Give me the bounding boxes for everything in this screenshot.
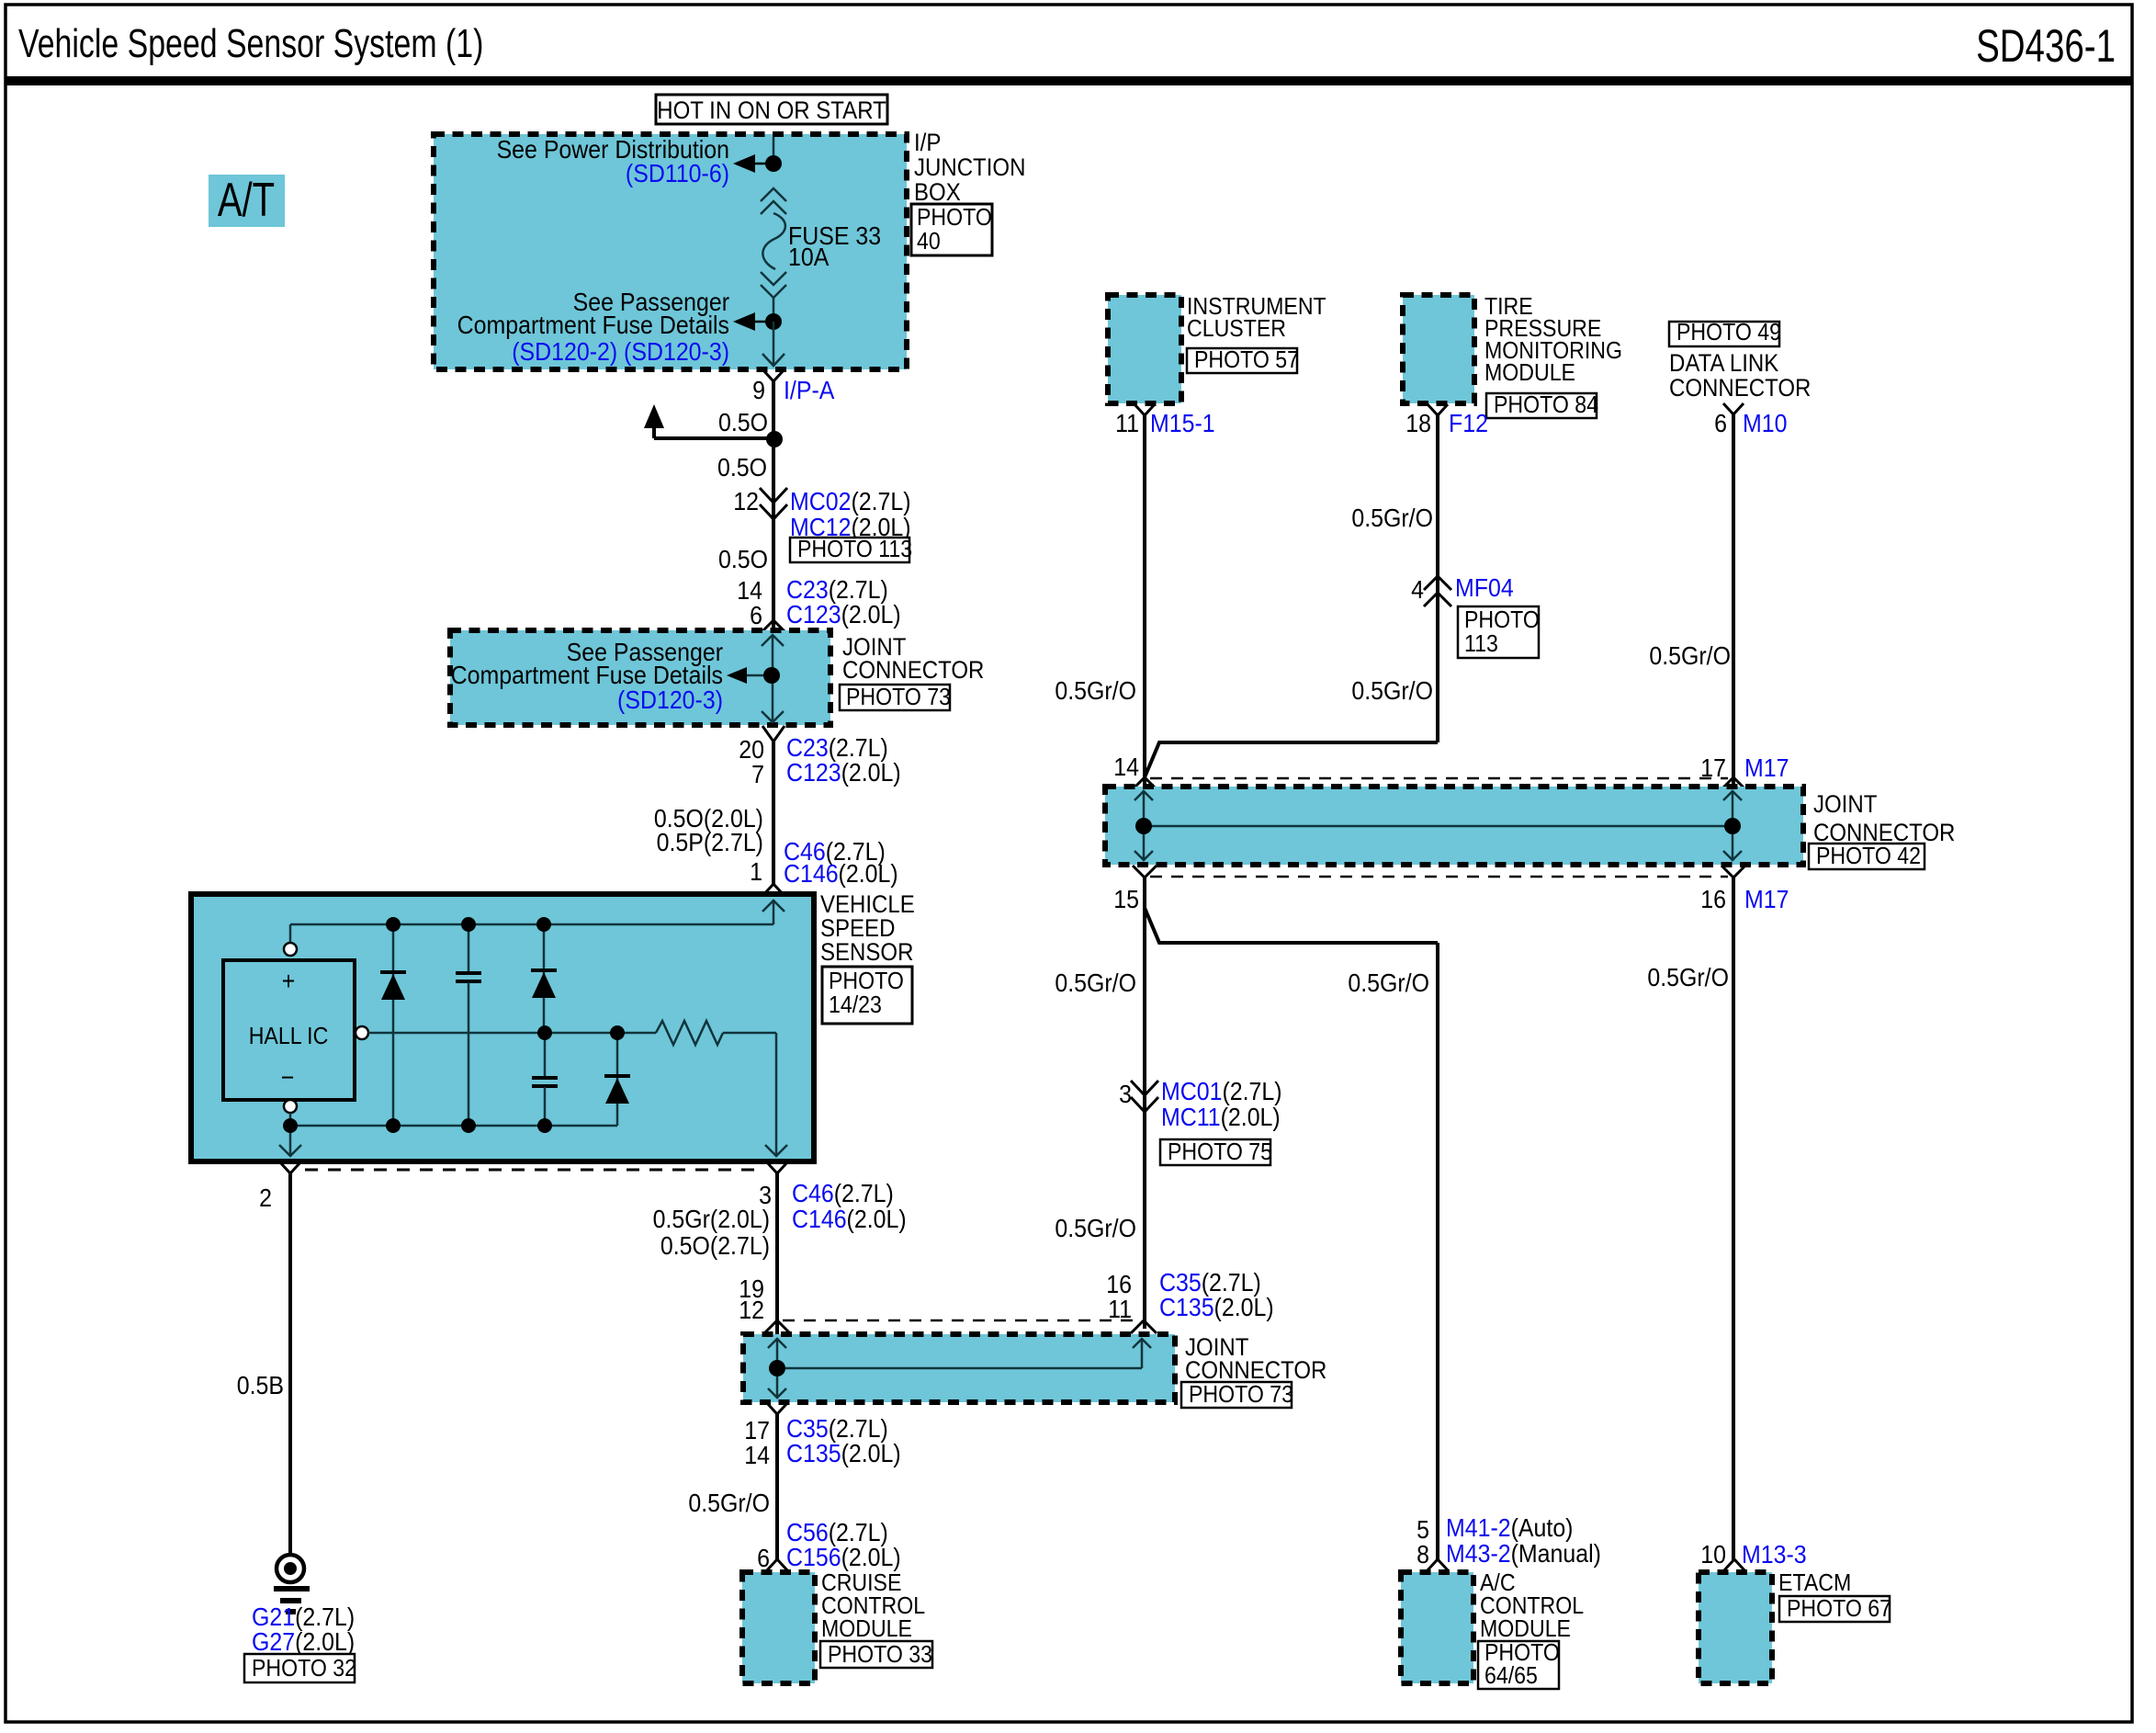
wire: DLC column down to ETACM	[1732, 878, 1735, 1560]
wire: instrument cluster to joint connector pin 14	[1143, 415, 1146, 787]
svg-text:+: +	[282, 967, 296, 996]
svg-text:C146(2.0L): C146(2.0L)	[784, 859, 898, 889]
svg-text:MC02(2.7L): MC02(2.7L)	[790, 487, 911, 516]
svg-text:4: 4	[1411, 575, 1424, 605]
capacitor C2	[532, 1033, 558, 1126]
svg-text:0.5Gr/O: 0.5Gr/O	[1055, 1214, 1136, 1243]
svg-text:Vehicle Speed Sensor System (1: Vehicle Speed Sensor System (1)	[18, 21, 483, 66]
wire: TPMS branch to cluster wire at pin 14	[1145, 742, 1438, 777]
title bar thick divider	[6, 76, 2132, 85]
svg-text:15: 15	[1113, 885, 1139, 914]
connector pin 2 (VSS)	[280, 1162, 300, 1173]
svg-text:M17: M17	[1744, 885, 1789, 914]
wire: VSS pin 3 down to lower joint connector	[775, 1173, 779, 1334]
svg-text:JUNCTION: JUNCTION	[914, 154, 1025, 182]
svg-text:PHOTO 84: PHOTO 84	[1494, 392, 1598, 419]
PHOTO 75 box	[1160, 1139, 1272, 1166]
PHOTO 42 box	[1809, 844, 1925, 870]
svg-text:PHOTO 75: PHOTO 75	[1168, 1139, 1272, 1166]
PHOTO 84 box	[1486, 392, 1598, 419]
svg-text:PHOTO 49: PHOTO 49	[1676, 320, 1781, 346]
PHOTO 57 box	[1187, 347, 1299, 374]
svg-text:MODULE: MODULE	[821, 1616, 912, 1643]
joint connector (lower, PHOTO 73)	[743, 1334, 1175, 1402]
svg-text:18: 18	[1405, 409, 1431, 438]
svg-text:12: 12	[733, 487, 759, 516]
A/T tag box	[209, 173, 285, 227]
wire: inside lower joint connector	[768, 1338, 1151, 1399]
dashed mating line (joint connector 42 top)	[1150, 777, 1728, 780]
ground G21/G27	[274, 1555, 310, 1612]
dashed mating line (lower joint connector)	[783, 1320, 1137, 1322]
svg-text:M13-3: M13-3	[1742, 1540, 1807, 1569]
node: upper joint connector tap	[763, 667, 780, 684]
svg-text:M43-2(Manual): M43-2(Manual)	[1446, 1539, 1601, 1569]
wire: lower joint connector to cruise module	[775, 1414, 779, 1560]
connector pin 11 M15-1	[1134, 404, 1155, 415]
svg-text:PHOTO 57: PHOTO 57	[1194, 347, 1299, 374]
svg-text:PHOTO 32: PHOTO 32	[252, 1656, 356, 1682]
resistor R1	[656, 1021, 723, 1045]
wire: I/P-A down to MC02 connector	[772, 381, 775, 661]
wire: joint connector to VSS pin 1	[772, 740, 775, 884]
wire: arrow to See Power Distribution	[740, 163, 773, 165]
svg-text:A/T: A/T	[218, 173, 275, 226]
svg-text:(SD120-3): (SD120-3)	[617, 685, 723, 715]
svg-text:0.5Gr/O: 0.5Gr/O	[1348, 968, 1429, 998]
svg-text:PHOTO 73: PHOTO 73	[846, 685, 951, 711]
PHOTO 32 box	[244, 1654, 356, 1682]
wire: HOT feed into I/P box	[773, 137, 775, 164]
connector pin 18 F12	[1428, 404, 1448, 415]
vehicle speed sensor box	[191, 894, 814, 1161]
svg-text:12: 12	[739, 1296, 764, 1325]
svg-text:6: 6	[750, 601, 762, 630]
svg-text:10: 10	[1700, 1540, 1726, 1569]
wire: A/C column down	[1436, 943, 1439, 1560]
svg-text:11: 11	[1108, 1295, 1132, 1324]
svg-text:16: 16	[1700, 885, 1726, 914]
svg-text:G27(2.0L): G27(2.0L)	[252, 1627, 355, 1657]
svg-text:I/P: I/P	[914, 130, 941, 157]
svg-text:M41-2(Auto): M41-2(Auto)	[1446, 1513, 1573, 1543]
svg-text:3: 3	[1119, 1080, 1132, 1109]
svg-text:2: 2	[259, 1184, 272, 1213]
svg-text:7: 7	[751, 760, 764, 789]
svg-text:PHOTO: PHOTO	[1464, 607, 1540, 634]
wire: VSS bottom bus	[290, 1125, 617, 1127]
svg-text:JOINT: JOINT	[1813, 791, 1878, 819]
svg-text:PHOTO 67: PHOTO 67	[1787, 1596, 1891, 1623]
wire: HALL IC minus to bottom bus	[289, 1113, 292, 1126]
PHOTO 67 box	[1779, 1596, 1891, 1623]
svg-text:I/P-A: I/P-A	[784, 376, 835, 405]
svg-text:M17: M17	[1744, 753, 1789, 783]
svg-text:BOX: BOX	[914, 179, 961, 207]
PHOTO 73 box (upper)	[840, 685, 951, 711]
wire: tap to pin 9 with exit arrow	[773, 322, 775, 366]
node dots in joint connector 42	[1135, 818, 1152, 834]
svg-text:0.5Gr/O: 0.5Gr/O	[1649, 641, 1731, 671]
svg-text:64/65: 64/65	[1484, 1663, 1538, 1690]
svg-text:SD436-1: SD436-1	[1976, 21, 2116, 72]
svg-text:0.5Gr/O: 0.5Gr/O	[1055, 968, 1136, 998]
PHOTO 14/23 box	[822, 967, 912, 1024]
wire: pin 15 down to lower joint connector (col A)	[1143, 878, 1146, 1329]
connector pins 17/14 C35/C135	[767, 1403, 787, 1414]
node: branch junction	[766, 431, 783, 447]
svg-text:0.5O: 0.5O	[718, 408, 768, 437]
PHOTO 113 box (MF04)	[1458, 606, 1540, 658]
svg-text:0.5Gr/O: 0.5Gr/O	[1351, 676, 1433, 706]
svg-text:14/23: 14/23	[829, 992, 882, 1019]
node dots on VSS buses	[283, 917, 625, 1133]
svg-text:1: 1	[750, 857, 762, 887]
svg-text:14: 14	[744, 1441, 770, 1470]
pin circle: HALL IC output	[356, 1026, 368, 1039]
svg-text:C156(2.0L): C156(2.0L)	[786, 1543, 901, 1572]
I/P junction box (dashed module)	[434, 134, 907, 369]
HALL IC box	[223, 960, 355, 1100]
diode D1 (left clamp)	[380, 924, 406, 1126]
svg-text:C135(2.0L): C135(2.0L)	[786, 1439, 901, 1468]
svg-text:11: 11	[1115, 409, 1139, 438]
svg-text:PHOTO 73: PHOTO 73	[1189, 1382, 1293, 1409]
svg-text:0.5P(2.7L): 0.5P(2.7L)	[657, 828, 763, 857]
svg-text:SENSOR: SENSOR	[820, 939, 913, 967]
svg-text:C135(2.0L): C135(2.0L)	[1159, 1293, 1274, 1322]
ETACM box	[1699, 1572, 1772, 1683]
svg-text:0.5Gr/O: 0.5Gr/O	[1055, 676, 1136, 706]
svg-text:Compartment Fuse Details: Compartment Fuse Details	[457, 311, 729, 340]
connector MC02/MC12 (in-line)	[760, 488, 787, 519]
svg-text:HALL IC: HALL IC	[249, 1024, 329, 1050]
svg-text:CLUSTER: CLUSTER	[1187, 316, 1286, 343]
svg-text:40: 40	[917, 229, 941, 255]
PHOTO 49 box	[1669, 320, 1781, 346]
svg-text:CONNECTOR: CONNECTOR	[1185, 1357, 1326, 1385]
svg-text:MC01(2.7L): MC01(2.7L)	[1161, 1077, 1282, 1106]
svg-text:F12: F12	[1449, 409, 1488, 438]
svg-text:MC11(2.0L): MC11(2.0L)	[1161, 1103, 1281, 1132]
wire: inside upper joint connector	[733, 635, 784, 722]
wire: branch arrow back up to I/P box	[652, 426, 656, 438]
connector pins 20/7 C23/C123	[762, 726, 785, 742]
svg-text:0.5B: 0.5B	[237, 1371, 284, 1400]
svg-text:−: −	[281, 1063, 295, 1093]
diode D2 (upper mid clamp)	[531, 924, 557, 1033]
wire: inside joint connector 42 left	[1134, 790, 1153, 861]
svg-text:(SD120-2) (SD120-3): (SD120-2) (SD120-3)	[512, 337, 729, 367]
connector pin 6 M10	[1723, 403, 1744, 414]
svg-text:DATA LINK: DATA LINK	[1669, 350, 1778, 378]
svg-text:M10: M10	[1743, 409, 1787, 438]
tire pressure monitoring module box	[1403, 295, 1474, 403]
wire: resistor to VSS pin 3	[723, 1033, 787, 1156]
svg-text:9: 9	[752, 376, 765, 405]
svg-text:C146(2.0L): C146(2.0L)	[792, 1205, 907, 1234]
svg-text:CONNECTOR: CONNECTOR	[842, 657, 984, 685]
svg-text:14: 14	[1113, 753, 1139, 782]
connector MF04 (in-line)	[1424, 576, 1451, 606]
svg-text:ETACM: ETACM	[1778, 1570, 1851, 1597]
connector pin 3 C46/C146 (VSS)	[767, 1162, 787, 1173]
svg-text:6: 6	[1714, 409, 1727, 438]
diode D3 (lower clamp)	[604, 1033, 630, 1126]
wire: arrow to See Passenger Compartment Fuse Details	[740, 321, 773, 323]
wire: VSS pin 2 to ground	[288, 1173, 292, 1556]
fuse FUSE 33 10A	[761, 188, 786, 298]
svg-text:8: 8	[1417, 1540, 1429, 1569]
svg-text:PHOTO 33: PHOTO 33	[828, 1642, 932, 1669]
svg-text:C123(2.0L): C123(2.0L)	[786, 758, 901, 787]
svg-text:10A: 10A	[788, 243, 830, 272]
wire: VSS pin 2 drop with arrow	[279, 1126, 301, 1156]
pin circle: HALL IC + terminal	[284, 943, 297, 956]
svg-text:PHOTO 42: PHOTO 42	[1816, 844, 1921, 870]
HOT IN ON OR START box	[656, 95, 887, 124]
wire: joint connector 42 internal bus	[1144, 825, 1733, 828]
connector pin 9 I/P-A	[763, 370, 784, 381]
svg-text:MODULE: MODULE	[1484, 360, 1575, 387]
node: passenger fuse tap	[765, 313, 782, 330]
svg-text:MODULE: MODULE	[1480, 1616, 1571, 1643]
A/C control module box	[1401, 1572, 1473, 1683]
PHOTO 73 box (lower)	[1181, 1382, 1293, 1409]
PHOTO 113 box (MC02)	[790, 537, 912, 563]
PHOTO 33 box	[820, 1641, 932, 1668]
connector MC01/MC11 (in-line)	[1131, 1081, 1158, 1112]
dashed connector separator under VSS	[305, 1169, 762, 1172]
node: lower joint connector tap	[769, 1360, 785, 1376]
svg-text:HOT IN ON OR START: HOT IN ON OR START	[657, 97, 886, 125]
svg-text:0.5O: 0.5O	[718, 545, 768, 574]
svg-text:M15-1: M15-1	[1150, 409, 1215, 438]
wire: pin 15 branch to A/C column	[1145, 908, 1438, 943]
svg-text:PHOTO: PHOTO	[829, 968, 904, 995]
svg-text:CONNECTOR: CONNECTOR	[1669, 375, 1811, 402]
svg-text:113: 113	[1464, 631, 1498, 658]
wire: fuse to lower tap	[773, 298, 775, 322]
wire: VSS pin1 riser and top bus	[290, 900, 785, 943]
wire: DLC to joint connector pin 17	[1732, 414, 1735, 787]
pin circle: HALL IC - terminal	[284, 1100, 297, 1113]
svg-text:(SD110-6): (SD110-6)	[626, 159, 729, 188]
svg-text:0.5Gr(2.0L): 0.5Gr(2.0L)	[653, 1205, 770, 1234]
svg-text:C46(2.7L): C46(2.7L)	[792, 1179, 894, 1208]
svg-text:0.5Gr/O: 0.5Gr/O	[688, 1489, 770, 1518]
PHOTO 64/65 box	[1478, 1640, 1560, 1690]
wire: TPMS to MF04	[1436, 415, 1439, 742]
wire: inside joint connector 42 right	[1723, 790, 1742, 861]
instrument cluster box	[1108, 295, 1181, 403]
svg-text:PHOTO: PHOTO	[917, 205, 992, 232]
svg-text:0.5O: 0.5O	[717, 453, 767, 482]
svg-text:MF04: MF04	[1455, 573, 1514, 603]
svg-text:0.5Gr/O: 0.5Gr/O	[1351, 504, 1433, 533]
capacitor C1	[456, 924, 481, 1126]
wire: VSS mid bus	[368, 1032, 656, 1035]
svg-text:C123(2.0L): C123(2.0L)	[786, 600, 901, 629]
svg-text:0.5O(2.7L): 0.5O(2.7L)	[660, 1231, 770, 1261]
svg-text:PHOTO 113: PHOTO 113	[797, 537, 912, 563]
joint connector PHOTO 42 box	[1105, 787, 1803, 865]
cruise control module box	[742, 1572, 815, 1683]
node: power distribution tap	[765, 155, 782, 172]
dashed mating line (joint connector 42 bottom)	[1150, 876, 1728, 878]
joint connector (upper, PHOTO 73)	[450, 630, 830, 725]
PHOTO 40 box	[911, 204, 992, 255]
svg-text:0.5Gr/O: 0.5Gr/O	[1647, 963, 1729, 992]
